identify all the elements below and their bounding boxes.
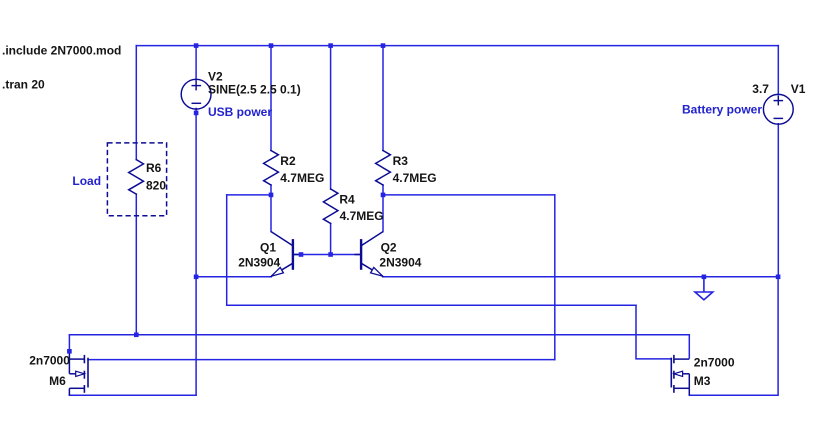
wire V1 top [777, 46, 779, 95]
wire R3 top [382, 46, 384, 151]
wire R4 bottom to base net [330, 224, 332, 255]
wire base net Q1-Q2 [293, 254, 361, 256]
resistor R4 zigzag [323, 189, 338, 224]
wire V1 column to M3 source row [689, 277, 778, 396]
wire Q1 emitter [196, 276, 271, 278]
wire Q2 emitter to V1 [383, 276, 778, 278]
wire left vertical to net A [226, 195, 228, 305]
wire net A horizontal [227, 304, 636, 306]
ground [695, 277, 713, 300]
svg-text:.tran 20: .tran 20 [2, 77, 45, 91]
junction rail-R4 [328, 43, 333, 48]
svg-text:V2: V2 [208, 69, 223, 83]
resistor R3 zigzag [376, 151, 391, 186]
svg-text:2n7000: 2n7000 [694, 356, 735, 370]
wire M6 gate row [88, 359, 555, 361]
svg-text:4.7MEG: 4.7MEG [393, 171, 437, 185]
wire R2 top [270, 46, 272, 151]
wire V2 bottom to emitter net [195, 109, 197, 277]
wire net B right corner to M3 drain [688, 335, 690, 358]
svg-text:SINE(2.5 2.5 0.1): SINE(2.5 2.5 0.1) [208, 82, 301, 96]
voltage source V1 [763, 94, 793, 124]
junction ground-emitter net [702, 275, 707, 280]
junction V2-emitter net [194, 275, 199, 280]
svg-text:4.7MEG: 4.7MEG [280, 171, 324, 185]
svg-text:2n7000: 2n7000 [29, 354, 70, 368]
svg-text:V1: V1 [791, 82, 806, 96]
MOSFET M6 (2n7000, mirrored NMOS) [69, 351, 88, 395]
junction Q1 base pin [299, 252, 304, 257]
svg-text:R4: R4 [339, 192, 355, 206]
svg-text:Q1: Q1 [260, 240, 276, 254]
junction rail-R2 [269, 43, 274, 48]
wire net B left corner to M6 drain pin [68, 335, 70, 352]
junction R4-base net [328, 252, 333, 257]
junction R6-net B [134, 333, 139, 338]
wire Q2 collector [382, 195, 384, 232]
wire Q1 collector [270, 195, 272, 232]
transistor Q2 (2N3904, NPN) [355, 232, 384, 277]
svg-text:2N3904: 2N3904 [379, 256, 421, 270]
svg-text:.include 2N7000.mod: .include 2N7000.mod [2, 44, 121, 58]
wire R2 bottom junction [270, 185, 272, 195]
svg-text:3.7: 3.7 [752, 82, 769, 96]
svg-text:2N3904: 2N3904 [238, 256, 280, 270]
svg-text:M6: M6 [49, 374, 66, 388]
junction R2 bottom [269, 193, 274, 198]
svg-text:Q2: Q2 [381, 240, 397, 254]
load dashed box [107, 143, 166, 216]
resistor R2 zigzag [264, 151, 279, 186]
wire V2 column down to M6 source row [69, 277, 196, 396]
junction M6 gate pin [67, 349, 72, 354]
svg-text:USB power: USB power [208, 105, 272, 119]
svg-text:R6: R6 [146, 161, 162, 175]
svg-text:M3: M3 [694, 374, 711, 388]
junction R3 bottom [381, 193, 386, 198]
svg-text:4.7MEG: 4.7MEG [340, 209, 384, 223]
svg-text:Battery power: Battery power [682, 102, 762, 116]
wire M6 source row [69, 394, 196, 396]
wire R3 junction right [383, 194, 555, 196]
transistor Q1 (2N3904, mirrored NPN) [271, 232, 301, 277]
svg-text:R2: R2 [280, 154, 296, 168]
wire R4 top [330, 46, 332, 189]
svg-text:820: 820 [146, 178, 166, 192]
wire R2 junction left [227, 194, 271, 196]
wire top rail [136, 45, 778, 47]
junction V1-emitter net [776, 275, 781, 280]
wire V1 bottom [777, 124, 779, 277]
voltage source V2 [181, 79, 211, 109]
wire rail left down to R6 [135, 46, 137, 160]
svg-text:R3: R3 [393, 154, 409, 168]
junction rail-R3 [381, 43, 386, 48]
junction V2 minus pin [194, 111, 199, 116]
wire right vertical down [554, 195, 556, 360]
wire net B horizontal [69, 334, 689, 336]
resistor R6 zigzag [129, 160, 144, 195]
wire net A riser to M3 gate [636, 305, 671, 359]
svg-text:Load: Load [72, 174, 101, 188]
junction rail-V2 [194, 43, 199, 48]
wire V2 top [195, 46, 197, 81]
wire R3 bottom junction [382, 185, 384, 195]
MOSFET M3 (2n7000, NMOS) [671, 355, 689, 395]
wire R6 bottom to net B [135, 194, 137, 335]
